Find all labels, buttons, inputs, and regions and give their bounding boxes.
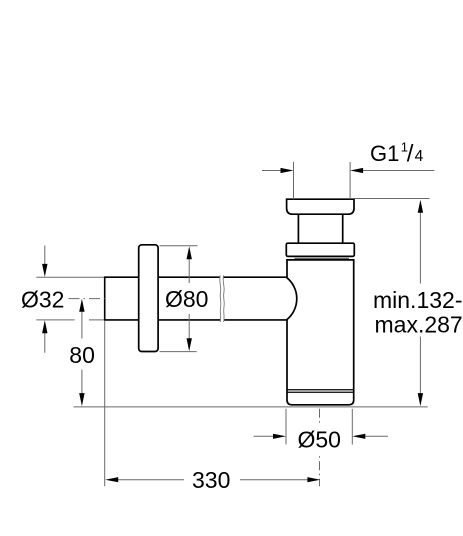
- svg-text:min.132-: min.132-: [373, 287, 462, 313]
- extension line thread left: [293, 162, 295, 199]
- Ø80 top extension: [160, 245, 198, 247]
- 330 left extension (below pipe end): [104, 321, 106, 487]
- Ø32 arrow stem bottom: [44, 332, 46, 353]
- arrowheads: [42, 168, 423, 482]
- arrow: Ø32 bottom, pointing up: [42, 320, 47, 333]
- G1 1/4 dim line left: [262, 170, 282, 172]
- Ø32 arrow stem top: [44, 246, 46, 266]
- arrow: thread right, pointing left: [350, 168, 363, 173]
- arrow: Ø80 top, pointing up: [187, 246, 192, 259]
- pipe break squiggle left: [220, 275, 221, 322]
- wall escutcheon flange Ø80: [139, 245, 158, 352]
- svg-text:Ø32: Ø32: [21, 286, 64, 312]
- svg-text:Ø80: Ø80: [165, 286, 208, 312]
- svg-text:/: /: [407, 140, 414, 167]
- inlet pipe wall end edge: [104, 276, 106, 320]
- svg-text:max.287: max.287: [375, 311, 463, 337]
- bottom reference line (trap bottom level): [74, 406, 428, 408]
- svg-text:G1: G1: [370, 141, 399, 166]
- inlet pipe Ø32 (bottom edge): [105, 319, 288, 321]
- min/max vertical dim line: [419, 210, 421, 394]
- Ø80 vertical dim line: [188, 257, 190, 341]
- pipe break squiggle right: [223, 275, 224, 322]
- G1 1/4 dim line right: [361, 170, 434, 172]
- 330 dim line: [116, 479, 309, 481]
- inlet pipe Ø32 (horizontal, top edge): [105, 276, 288, 278]
- top coupling nut ring: [286, 243, 354, 256]
- arrow: 330 left, pointing left: [105, 477, 118, 482]
- pipe break gap: [220, 275, 223, 323]
- arrow: 80 top, pointing up: [79, 299, 84, 312]
- Ø50 left extension: [285, 409, 287, 445]
- extension line flange top right: [354, 198, 430, 200]
- arrow: 330 right, pointing right: [307, 477, 320, 482]
- text halos: [66, 283, 463, 493]
- arrow: Ø50 left, pointing right: [273, 434, 286, 439]
- arrow: min/max top, pointing up: [418, 200, 423, 213]
- Ø80 bottom extension: [160, 351, 197, 353]
- svg-text:330: 330: [192, 467, 230, 493]
- pipe centerline dash-dot: [69, 298, 105, 300]
- arrow: thread left, pointing right: [281, 168, 294, 173]
- neck tube between flange and nut: [298, 214, 342, 243]
- Ø50 dim line right: [364, 435, 388, 437]
- extension line thread right: [349, 162, 351, 199]
- arrow: Ø50 right, pointing left: [352, 434, 365, 439]
- arrow: 80 bottom, pointing down: [79, 393, 84, 406]
- joint shadow line under nut: [295, 257, 350, 259]
- body bottom joint double line: [287, 390, 354, 393]
- arrow: min/max bottom, pointing down: [418, 393, 423, 406]
- arrow: Ø32 top, pointing down: [42, 264, 47, 277]
- svg-text:Ø50: Ø50: [298, 427, 341, 453]
- Ø32 bottom extension (gap for 80 line): [36, 319, 104, 321]
- body centerline dash-dot: [319, 409, 321, 487]
- arrow: Ø80 bottom, pointing down: [187, 338, 192, 351]
- top drain flange: [287, 199, 354, 214]
- svg-text:80: 80: [69, 342, 95, 368]
- 80 vertical dim line: [81, 310, 83, 395]
- svg-text:4: 4: [415, 148, 424, 165]
- trap body (cup): [287, 260, 354, 405]
- Ø50 right extension: [351, 409, 353, 445]
- Ø50 dim line left: [254, 435, 275, 437]
- Ø32 top extension: [36, 276, 104, 278]
